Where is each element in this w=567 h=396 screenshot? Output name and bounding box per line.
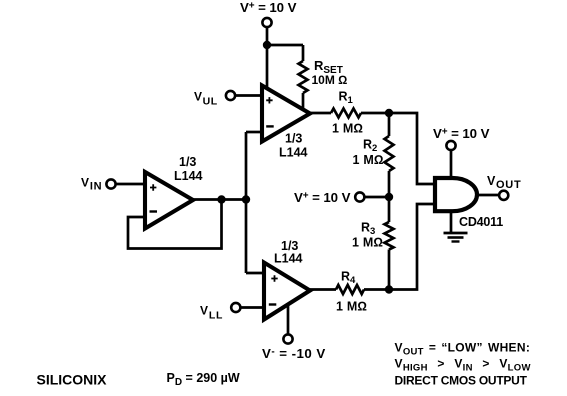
svg-text:L144: L144	[274, 252, 303, 266]
svg-text:1 MΩ: 1 MΩ	[353, 153, 384, 167]
svg-text:1 MΩ: 1 MΩ	[336, 300, 367, 314]
svg-text:CD4011: CD4011	[459, 215, 503, 229]
svg-text:DIRECT CMOS OUTPUT: DIRECT CMOS OUTPUT	[395, 374, 528, 388]
svg-text:L144: L144	[279, 146, 308, 160]
svg-text:1/3: 1/3	[285, 132, 302, 146]
svg-text:V+ = 10 V: V+ = 10 V	[433, 126, 490, 141]
svg-text:1/3: 1/3	[179, 155, 196, 169]
svg-text:V+ = 10 V: V+ = 10 V	[240, 0, 297, 15]
svg-text:V+ = 10 V: V+ = 10 V	[294, 190, 351, 205]
svg-text:1 MΩ: 1 MΩ	[352, 236, 383, 250]
svg-text:10M Ω: 10M Ω	[312, 73, 348, 87]
svg-text:SILICONIX: SILICONIX	[37, 372, 108, 388]
svg-text:1 MΩ: 1 MΩ	[332, 122, 363, 136]
svg-text:L144: L144	[174, 169, 203, 183]
